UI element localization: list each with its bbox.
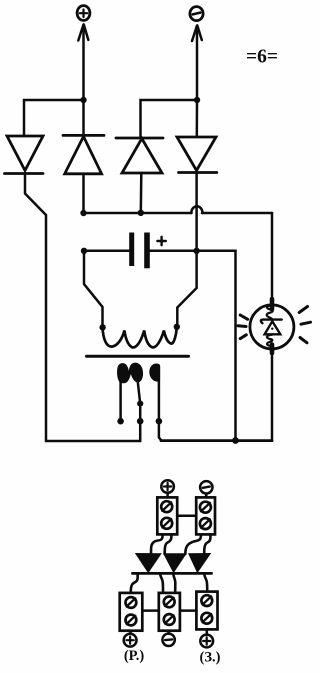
terminal block TB5 bottom-right	[196, 592, 217, 630]
wire lamp bottom to rail	[271, 349, 274, 441]
node middle tap upper	[137, 401, 143, 407]
node coil left end	[99, 324, 105, 330]
wire left funnel to coil	[84, 251, 103, 327]
terminal block TB2 top-right	[196, 497, 215, 534]
svg-text:(Р.): (Р.)	[124, 648, 144, 664]
node junction - column / D3 branch	[194, 97, 200, 103]
arrow to minus terminal	[192, 26, 202, 101]
wire link TB3-TB4	[142, 609, 159, 612]
wire bottom-left rail	[46, 440, 140, 443]
lamp ray lower-left	[240, 335, 246, 339]
wire bus to bottom-left block squiggle	[131, 573, 138, 592]
wire link TB4-TB5	[180, 609, 197, 612]
transformer core	[87, 355, 189, 358]
wire bus to bottom-middle block right squiggle	[173, 573, 175, 592]
wire secondary middle tap down to left rail	[138, 382, 140, 441]
node right tap	[156, 418, 163, 425]
lamp ray right	[301, 322, 311, 324]
transformer secondary winding blob left	[117, 363, 143, 384]
wire TB1 right lead squiggle to diode row	[165, 535, 172, 555]
wire top-left branch (D1 anode to + column)	[24, 100, 84, 136]
diode VD1 (filled)	[135, 553, 162, 573]
svg-text:=6=: =6=	[246, 47, 278, 68]
inductor L1 transformer primary coil	[103, 327, 177, 347]
wire stem TB3 to plus	[129, 631, 132, 634]
lamp ray lower-right	[300, 338, 307, 343]
wire stem TB4 to minus	[167, 631, 170, 634]
node cap row / D4 wire	[193, 248, 199, 254]
terminal plus small (top of block assembly)	[161, 480, 174, 493]
wire D2 anode down to row1	[82, 174, 85, 213]
wire cap row left	[84, 250, 129, 253]
wire bus to bottom-right block squiggle	[204, 573, 207, 591]
node coil right end	[174, 324, 180, 330]
node cap row / funnel left	[81, 248, 87, 254]
wire top-right branch (D3 to - column)	[141, 100, 198, 138]
wire bottom-right rail	[161, 439, 272, 442]
wire diode row bus line	[133, 572, 212, 575]
node middle tap lower	[137, 418, 144, 425]
wire - column to D4 anode	[196, 100, 199, 137]
wire secondary right tap down to right rail	[159, 381, 162, 441]
lamp inner squiggle top	[267, 305, 273, 318]
wire TB1 left lead squiggle to diode row	[151, 535, 163, 555]
node bottom rail / right vertical	[232, 437, 239, 444]
lamp ray left	[238, 324, 246, 328]
wire secondary left tap	[119, 381, 122, 421]
diode D4 (cathode down)	[177, 137, 217, 173]
terminal block TB1 top-left	[157, 497, 177, 534]
terminal block TB3 bottom-left	[120, 593, 143, 631]
wire + column to D2 cathode	[82, 100, 85, 135]
lamp diode triangle	[265, 321, 281, 334]
wire stem minus to block	[205, 494, 208, 498]
terminal minus (-) top	[190, 7, 203, 21]
terminal plus bottom-left	[124, 634, 137, 647]
diode VD3 (filled)	[188, 553, 211, 573]
wire D3 anode down to row1	[140, 173, 143, 213]
arrow to plus terminal	[78, 25, 88, 101]
diode D3 (cathode up)	[116, 138, 163, 173]
diode D2 (cathode up)	[63, 135, 104, 173]
lamp inner squiggle bottom	[267, 335, 272, 347]
terminal block TB4 bottom-middle	[159, 593, 180, 631]
wire link TB1-TB2	[177, 514, 196, 517]
terminal minus bottom-middle	[162, 634, 174, 646]
terminal plus (+) top	[77, 6, 90, 21]
node row1 / D3	[138, 210, 144, 216]
wire stem TB5 to plus	[206, 629, 209, 634]
wire right funnel to coil	[177, 251, 196, 327]
lamp zener bar	[261, 320, 282, 324]
lamp lead thick bottom	[270, 345, 275, 354]
wire D4 cathode down through hop to cap row	[195, 173, 198, 252]
wire cap row right, down right side to bottom rail	[150, 251, 236, 441]
diode VD2 (filled)	[163, 553, 187, 573]
node junction + column / D1 branch	[80, 97, 86, 103]
transformer secondary winding blob right	[149, 363, 160, 381]
wire D1 cathode jog down to left rail	[25, 174, 46, 442]
node secondary left tap end	[117, 418, 124, 425]
terminal minus small (top of block assembly)	[200, 481, 212, 493]
node row1 / D2	[80, 210, 86, 216]
capacitor C1 polarized	[129, 233, 166, 269]
lamp HL1 indicator circle	[250, 305, 294, 349]
wire TB2 left lead squiggle to diode row	[185, 535, 201, 555]
svg-text:(З.): (З.)	[200, 650, 221, 666]
diode D1 (cathode down)	[5, 136, 44, 174]
terminal plus bottom-right	[200, 635, 213, 648]
lamp lead thick top	[270, 299, 275, 309]
wire row1 with hop over D4 wire, to lamp column	[84, 206, 273, 305]
lamp ray upper-left	[240, 315, 248, 319]
lamp ray upper-right	[299, 307, 307, 313]
wire TB2 right lead squiggle to diode row	[204, 535, 210, 555]
wire bus to bottom-middle block left squiggle	[160, 573, 163, 592]
lamp triangle dot	[271, 328, 273, 330]
wire stem plus to block	[166, 493, 169, 498]
